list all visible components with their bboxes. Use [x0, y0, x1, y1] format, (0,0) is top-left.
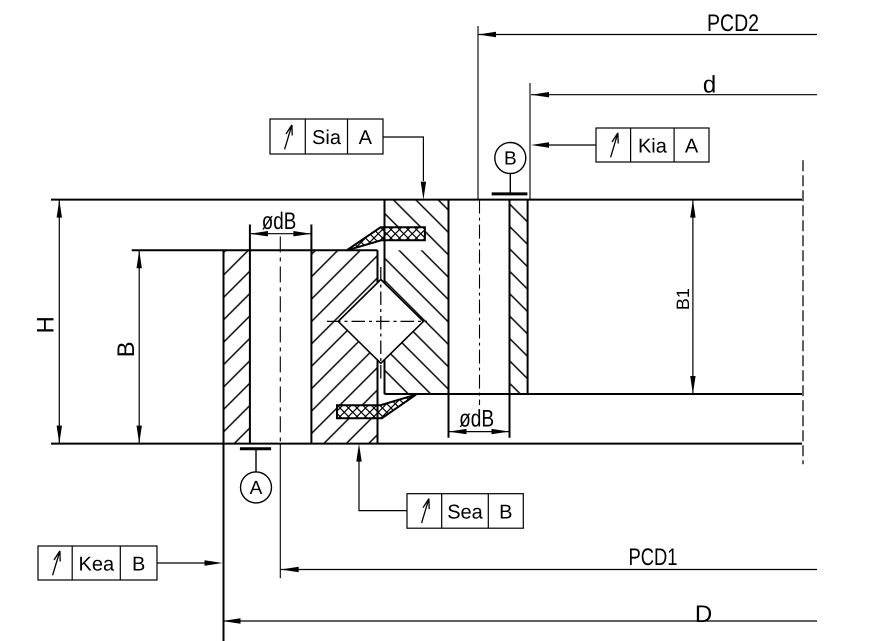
- svg-text:A: A: [359, 127, 373, 149]
- svg-text:Kia: Kia: [638, 136, 668, 158]
- svg-text:H: H: [32, 316, 59, 333]
- svg-text:ødB: ødB: [262, 208, 297, 235]
- svg-text:PCD1: PCD1: [629, 544, 678, 571]
- svg-text:ødB: ødB: [459, 406, 494, 433]
- svg-text:Sea: Sea: [447, 502, 483, 524]
- svg-text:A: A: [250, 478, 263, 499]
- svg-text:d: d: [703, 71, 716, 98]
- svg-text:A: A: [685, 136, 699, 158]
- svg-text:D: D: [695, 601, 712, 628]
- svg-text:B: B: [499, 502, 512, 524]
- svg-text:B: B: [113, 341, 140, 357]
- svg-text:Sia: Sia: [312, 127, 342, 149]
- svg-text:B1: B1: [673, 288, 693, 310]
- svg-text:Kea: Kea: [79, 554, 115, 576]
- svg-text:PCD2: PCD2: [707, 10, 759, 37]
- svg-text:B: B: [504, 149, 517, 170]
- svg-text:B: B: [132, 554, 145, 576]
